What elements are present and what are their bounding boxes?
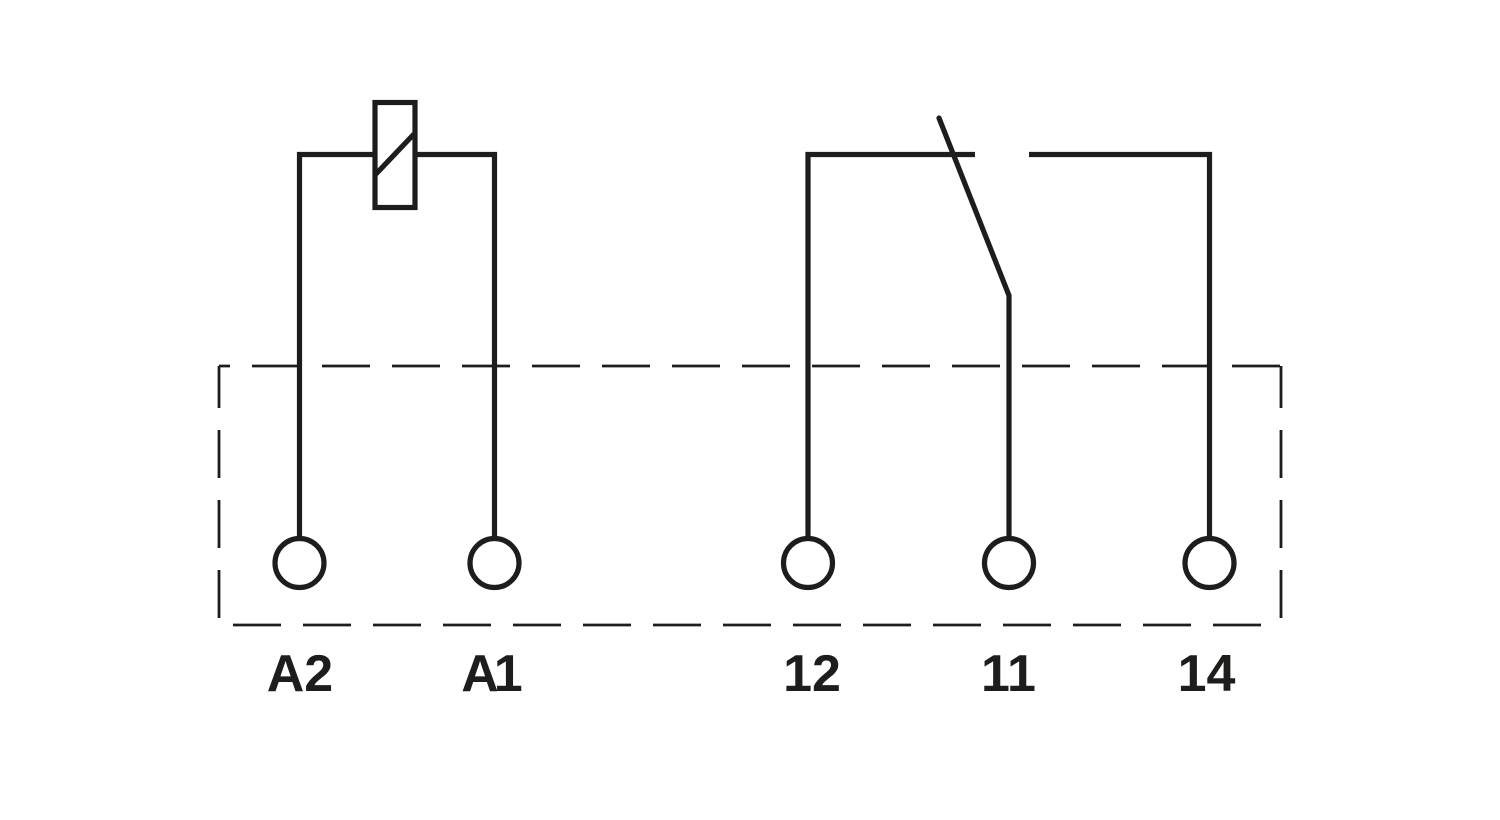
- dashed enclosure: top edge: [219, 365, 1281, 368]
- terminal A2: [275, 539, 324, 588]
- coil indicator diagonal: [375, 134, 414, 175]
- wire: terminal 12 up and over to contact gap: [808, 155, 975, 540]
- relay coil K1: [375, 103, 415, 208]
- dashed enclosure: bottom edge: [219, 624, 1281, 627]
- svg-text:A2: A2: [267, 645, 333, 703]
- dashed enclosure: left edge: [218, 366, 221, 625]
- terminal 11: [985, 539, 1034, 588]
- terminal A1: [470, 539, 519, 588]
- svg-text:14: 14: [1178, 645, 1236, 703]
- switch blade and wire down to terminal 11: [939, 118, 1009, 539]
- dashed enclosure: right edge: [1280, 366, 1283, 625]
- terminal 14: [1185, 539, 1234, 588]
- wire: coil loop right (A1 up and over to coil): [415, 155, 495, 540]
- svg-text:11: 11: [981, 645, 1036, 703]
- wire: terminal 14 up and over (NO contact side): [1029, 155, 1210, 540]
- svg-text:12: 12: [783, 645, 841, 703]
- svg-text:A1: A1: [461, 645, 522, 703]
- wire: coil loop left (A2 up and over to coil): [300, 155, 376, 540]
- terminal 12: [784, 539, 833, 588]
